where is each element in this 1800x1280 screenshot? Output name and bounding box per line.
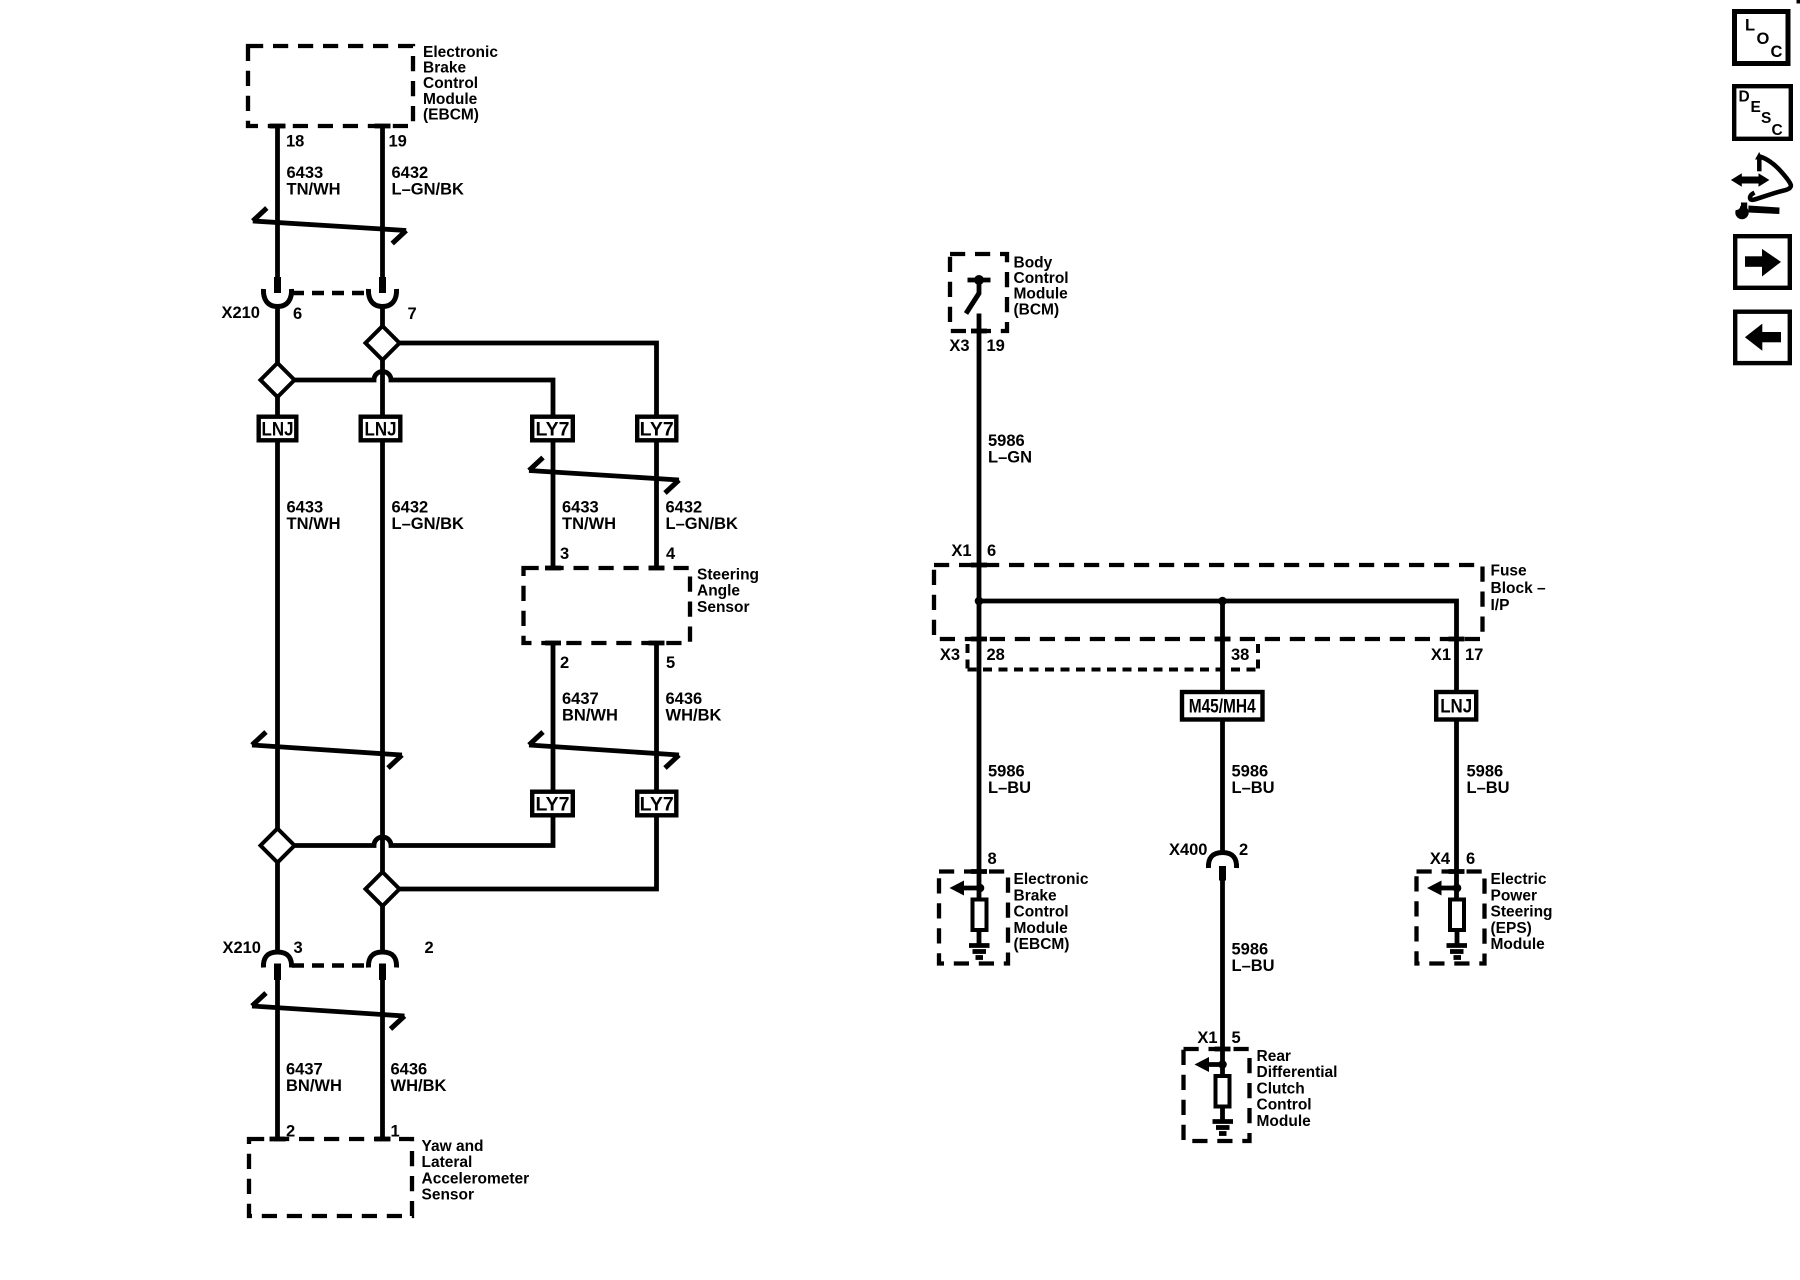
svg-text:8: 8 — [988, 850, 997, 868]
bus drop to M45/MH4 — [1220, 601, 1225, 639]
svg-text:Yaw and: Yaw and — [422, 1138, 484, 1155]
value label 6432 L-GN/BK (LY7 branch) — [666, 499, 739, 534]
svg-text:LNJ: LNJ — [365, 419, 397, 440]
option box LY7 (wire 6432 branch) — [637, 417, 676, 441]
splice diamond on wire 6432 — [366, 326, 400, 360]
yaw and lateral accelerometer sensor dashed box — [249, 1139, 412, 1216]
connector X210 pin 2 male terminal — [379, 964, 386, 981]
connector X210 pin 7 female terminal — [368, 289, 396, 307]
svg-text:5986: 5986 — [988, 432, 1025, 450]
svg-text:5: 5 — [1232, 1029, 1241, 1047]
connector X210 pin 7 male terminal — [379, 277, 386, 293]
svg-text:Block –: Block – — [1491, 580, 1547, 597]
label Rear Differential Clutch Control Module — [1257, 1048, 1338, 1130]
svg-text:X1: X1 — [1431, 646, 1451, 664]
wire 6436 splice to X210 — [380, 906, 385, 953]
BCM boundary tick — [971, 329, 987, 334]
wire 6433 LY7 branch below box — [551, 442, 556, 568]
wire 6432 splice to LNJ box — [380, 360, 385, 415]
label Body Control Module (BCM) — [1014, 254, 1069, 318]
svg-text:(BCM): (BCM) — [1014, 301, 1060, 318]
svg-text:6432: 6432 — [666, 499, 703, 517]
value label 6433 TN/WH (LY7 branch) — [562, 499, 616, 534]
svg-text:S: S — [1761, 110, 1771, 127]
svg-text:X210: X210 — [221, 304, 260, 322]
option box LY7 (wire 6436) — [637, 792, 676, 816]
svg-text:19: 19 — [389, 133, 407, 151]
connector X210 link (dashed) — [292, 291, 368, 296]
wire 6433 below X210 — [275, 307, 280, 364]
icon DESC button — [1734, 86, 1791, 139]
svg-text:D: D — [1739, 89, 1750, 106]
svg-text:Control: Control — [423, 75, 478, 92]
svg-text:4: 4 — [666, 545, 676, 563]
value label 6433 TN/WH (mid left) — [287, 499, 341, 534]
svg-text:L–GN/BK: L–GN/BK — [392, 181, 465, 199]
off-page arrow crossing wires 6437/6436 — [529, 732, 679, 768]
EPS resistor to ground wire — [1455, 930, 1460, 944]
connector X210 pin 6 male terminal — [274, 277, 281, 293]
icon LOC button — [1735, 12, 1789, 64]
svg-text:LY7: LY7 — [640, 794, 674, 815]
svg-text:LY7: LY7 — [640, 419, 674, 440]
svg-text:WH/BK: WH/BK — [391, 1077, 447, 1095]
option box LY7 (wire 6433 branch) — [532, 417, 573, 441]
svg-text:L–BU: L–BU — [1467, 779, 1510, 797]
EBCM pin 18 boundary tick — [270, 124, 286, 129]
svg-text:Rear: Rear — [1257, 1048, 1291, 1065]
svg-text:18: 18 — [286, 133, 304, 151]
rear diff boundary tick — [1215, 1047, 1231, 1052]
svg-text:Steering: Steering — [1491, 904, 1553, 921]
svg-text:3: 3 — [560, 545, 569, 563]
wire through fuse block (left) — [977, 565, 982, 639]
rear diff internal resistor — [1216, 1076, 1230, 1107]
value label 6433 TN/WH — [287, 164, 341, 199]
svg-text:LNJ: LNJ — [1440, 697, 1472, 718]
svg-text:Clutch: Clutch — [1257, 1080, 1305, 1097]
svg-text:X1: X1 — [1197, 1029, 1217, 1047]
label Yaw and Lateral Accelerometer Sensor — [422, 1138, 530, 1204]
option box LNJ (wire 6432) — [361, 417, 401, 441]
EPS ground — [1447, 946, 1468, 958]
wire 6433 below LNJ — [275, 442, 280, 829]
connector X3 dashed outline under fuse block — [968, 644, 1259, 671]
module EPS dashed box — [1417, 872, 1485, 964]
module BCM dashed box — [950, 254, 1007, 331]
svg-text:X210: X210 — [222, 939, 261, 957]
svg-text:5: 5 — [666, 654, 675, 672]
splice diamond on wire 6433/6437 — [261, 829, 295, 863]
label Steering Angle Sensor — [697, 566, 759, 616]
svg-text:Control: Control — [1014, 270, 1069, 287]
rear diff resistor to ground wire — [1220, 1107, 1225, 1121]
svg-text:Brake: Brake — [1014, 887, 1057, 904]
svg-text:5986: 5986 — [988, 763, 1025, 781]
svg-text:(EPS): (EPS) — [1491, 920, 1532, 937]
svg-text:O: O — [1757, 30, 1770, 48]
svg-text:Brake: Brake — [423, 60, 466, 77]
svg-text:Sensor: Sensor — [697, 599, 750, 616]
EBCM pin 19 boundary tick — [375, 124, 391, 129]
svg-text:Differential: Differential — [1257, 1064, 1338, 1081]
splice diamond on wire 6433 — [261, 363, 295, 397]
svg-text:17: 17 — [1465, 646, 1483, 664]
svg-text:38: 38 — [1231, 646, 1249, 664]
svg-text:M45/MH4: M45/MH4 — [1189, 697, 1256, 718]
svg-text:E: E — [1751, 99, 1761, 116]
connector X210 pin 3 male terminal — [274, 964, 281, 981]
rear diff internal signal arrow — [1195, 1057, 1227, 1072]
value label 5986 L-BU (lower middle) — [1232, 941, 1275, 976]
label Electronic Brake Control Module (EBCM) — [423, 44, 498, 124]
connector X210 pin 3 female terminal (lower) — [263, 952, 291, 968]
svg-text:WH/BK: WH/BK — [666, 706, 722, 724]
svg-text:LY7: LY7 — [536, 794, 570, 815]
svg-text:(EBCM): (EBCM) — [1014, 936, 1070, 953]
svg-text:X4: X4 — [1430, 850, 1451, 868]
svg-text:Module: Module — [423, 91, 478, 108]
wire 6436 WH/BK from sensor pin 5 — [654, 643, 659, 790]
label Electronic Brake Control Module (EBCM) bottom — [1014, 871, 1089, 953]
svg-text:6: 6 — [987, 542, 996, 560]
wire from splice to LY7 branch (right) — [400, 343, 657, 415]
rear diff ground — [1213, 1122, 1234, 1134]
internal bus wire — [979, 601, 1457, 639]
module EBCM (bottom) dashed box — [939, 872, 1008, 964]
svg-text:6: 6 — [1466, 850, 1475, 868]
wire 6432 below X210 — [380, 307, 385, 327]
svg-text:7: 7 — [408, 305, 417, 323]
svg-text:L–GN/BK: L–GN/BK — [392, 515, 465, 533]
option box M45/MH4 — [1182, 692, 1263, 720]
svg-text:6: 6 — [293, 305, 302, 323]
svg-text:LY7: LY7 — [536, 419, 570, 440]
svg-text:5986: 5986 — [1232, 941, 1269, 959]
svg-text:2: 2 — [425, 939, 434, 957]
svg-text:Electronic: Electronic — [423, 44, 498, 61]
svg-text:(EBCM): (EBCM) — [423, 107, 479, 124]
wire to LNJ box — [1454, 639, 1459, 692]
svg-text:6436: 6436 — [666, 690, 703, 708]
wire 6437 from LY7 to splice with hop over 6432 — [295, 818, 554, 846]
connector X400 male terminal — [1219, 866, 1226, 881]
connector X210 pin 6 female terminal — [263, 289, 291, 307]
off-page arrow crossing LY7 branch wires — [529, 458, 679, 494]
BCM internal driver switch — [966, 275, 991, 314]
value label 6436 WH/BK — [666, 690, 722, 725]
svg-text:BN/WH: BN/WH — [286, 1077, 342, 1095]
value label 5986 L-BU (left) — [988, 763, 1031, 798]
connector X210 link lower (dashed) — [292, 963, 368, 968]
svg-text:28: 28 — [987, 646, 1005, 664]
page corner mark — [1797, 0, 1800, 4]
svg-text:Power: Power — [1491, 887, 1538, 904]
svg-text:Control: Control — [1257, 1097, 1312, 1114]
wire 6437 BN/WH from sensor pin 2 — [551, 643, 556, 790]
svg-text:L–BU: L–BU — [1232, 957, 1275, 975]
svg-text:X400: X400 — [1169, 841, 1208, 859]
EBCM resistor to ground wire — [977, 930, 982, 944]
icon service/repair (double arrow, outline, wrench) — [1731, 152, 1791, 219]
svg-text:Electronic: Electronic — [1014, 871, 1089, 888]
svg-text:X3: X3 — [940, 646, 960, 664]
svg-text:Fuse: Fuse — [1491, 563, 1528, 580]
svg-text:L–BU: L–BU — [988, 779, 1031, 797]
value label 6432 L-GN/BK (mid left) — [392, 499, 465, 534]
EBCM internal signal arrow — [950, 881, 985, 896]
svg-text:3: 3 — [294, 939, 303, 957]
svg-text:Accelerometer: Accelerometer — [422, 1170, 530, 1187]
EBCM internal resistor — [973, 900, 987, 931]
svg-text:Body: Body — [1014, 254, 1053, 271]
EBCM boundary tick — [971, 869, 987, 874]
svg-text:19: 19 — [987, 337, 1005, 355]
label Fuse Block - I/P — [1491, 563, 1547, 614]
svg-text:5986: 5986 — [1232, 763, 1269, 781]
fuse block boundary ticks — [971, 563, 987, 568]
svg-text:Electric: Electric — [1491, 871, 1547, 888]
wire 6432 LY7 branch below box — [654, 442, 659, 568]
value label 6432 L-GN/BK — [392, 164, 465, 199]
svg-text:6432: 6432 — [392, 499, 429, 517]
off-page arrow crossing wires 6437/6436 (bottom) — [252, 993, 405, 1029]
wire from LNJ to EPS module — [1454, 720, 1459, 900]
svg-text:L: L — [1745, 17, 1755, 35]
EPS boundary tick — [1449, 869, 1465, 874]
wire 6432 below LNJ — [380, 442, 385, 873]
svg-text:C: C — [1771, 43, 1783, 61]
connector X400 female terminal — [1208, 853, 1236, 869]
wire 6433 TN/WH from EBCM pin 18 — [275, 126, 280, 277]
junction node (left) — [975, 597, 984, 606]
value label 5986 L-BU (right) — [1467, 763, 1510, 798]
wire 6436 below X210 — [380, 979, 385, 1139]
module EBCM (top) dashed box — [248, 46, 413, 126]
value label 6437 BN/WH — [562, 690, 618, 725]
svg-text:L–BU: L–BU — [1232, 779, 1275, 797]
splice diamond on wire 6432/6436 — [366, 872, 400, 906]
module rear differential clutch control dashed box — [1184, 1049, 1250, 1141]
svg-text:1: 1 — [391, 1123, 400, 1141]
svg-text:C: C — [1772, 122, 1783, 139]
svg-text:L–GN: L–GN — [988, 449, 1032, 467]
wire 5986 L-BU left branch — [977, 639, 982, 900]
wire 6437 below X210 — [275, 979, 280, 1139]
wire from M45/MH4 to X400 — [1220, 720, 1225, 853]
svg-text:X3: X3 — [949, 337, 969, 355]
value label 5986 L-GN — [988, 432, 1032, 467]
svg-text:Steering: Steering — [697, 566, 759, 583]
svg-text:2: 2 — [1239, 841, 1248, 859]
svg-text:Control: Control — [1014, 904, 1069, 921]
wire 6432 L-GN/BK from EBCM pin 19 — [380, 126, 385, 277]
svg-text:6436: 6436 — [391, 1061, 428, 1079]
icon next-page arrow button — [1735, 236, 1790, 288]
sensor pin ticks — [545, 566, 561, 571]
svg-text:2: 2 — [560, 654, 569, 672]
svg-text:L–GN/BK: L–GN/BK — [666, 515, 739, 533]
svg-text:X1: X1 — [951, 542, 971, 560]
icon previous-page arrow button — [1735, 312, 1790, 363]
option box LNJ (right) — [1436, 692, 1476, 720]
off-page arrow crossing wires 6433/6432 (lower) — [252, 732, 402, 768]
svg-text:5986: 5986 — [1467, 763, 1504, 781]
off-page arrow crossing wires 18/19 — [253, 208, 406, 244]
value label 6436 WH/BK (bottom) — [391, 1061, 447, 1096]
svg-text:TN/WH: TN/WH — [287, 515, 341, 533]
svg-text:6432: 6432 — [392, 164, 429, 182]
svg-text:6433: 6433 — [287, 499, 324, 517]
EBCM ground — [969, 946, 990, 958]
fuse block I/P dashed box — [934, 565, 1483, 639]
svg-text:TN/WH: TN/WH — [287, 181, 341, 199]
option box LNJ (wire 6433) — [259, 417, 297, 441]
svg-text:Module: Module — [1014, 920, 1069, 937]
svg-text:Module: Module — [1257, 1113, 1312, 1130]
svg-text:6437: 6437 — [562, 690, 599, 708]
svg-text:6433: 6433 — [287, 164, 324, 182]
value label 6437 BN/WH (bottom) — [286, 1061, 342, 1096]
svg-text:I/P: I/P — [1491, 597, 1510, 614]
label Electric Power Steering (EPS) Module — [1491, 871, 1553, 953]
svg-text:Angle: Angle — [697, 583, 740, 600]
wire 5986 L-GN from BCM — [977, 314, 982, 566]
junction node (middle) — [1218, 597, 1227, 606]
svg-text:Lateral: Lateral — [422, 1154, 473, 1171]
svg-text:LNJ: LNJ — [262, 419, 294, 440]
EPS internal signal arrow — [1427, 881, 1461, 896]
svg-text:Module: Module — [1014, 286, 1069, 303]
wire 6436 from LY7 to splice — [400, 818, 657, 890]
wire 6433 splice to LNJ box — [275, 397, 280, 415]
svg-text:BN/WH: BN/WH — [562, 706, 618, 724]
wire 6437 splice to X210 — [275, 862, 280, 952]
yaw sensor pin ticks — [270, 1137, 286, 1142]
connector X210 pin 2 female terminal (lower) — [368, 952, 396, 968]
svg-text:Module: Module — [1491, 936, 1546, 953]
wire from splice to LY7 branch with hop over 6432 — [295, 372, 554, 415]
value label 5986 L-BU (middle) — [1232, 763, 1275, 798]
option box LY7 (wire 6437) — [532, 792, 573, 816]
wire to M45/MH4 box — [1220, 639, 1225, 692]
svg-text:6437: 6437 — [286, 1061, 323, 1079]
steering angle sensor dashed box — [524, 568, 691, 643]
EPS internal resistor — [1450, 900, 1464, 931]
svg-text:Sensor: Sensor — [422, 1187, 475, 1204]
wire 5986 L-BU to rear diff module — [1220, 881, 1225, 1077]
svg-text:6433: 6433 — [562, 499, 599, 517]
svg-text:TN/WH: TN/WH — [562, 515, 616, 533]
